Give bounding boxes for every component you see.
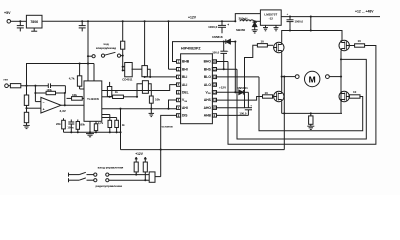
- svg-text:+: +: [43, 108, 45, 112]
- ground below R17: [149, 112, 155, 114]
- wire AHB row: [217, 114, 249, 116]
- wire top-right drain: [340, 40, 342, 42]
- capacitor C2: [81, 21, 83, 25]
- svg-text:10: 10: [261, 40, 265, 44]
- wire riser to enable bus: [120, 109, 122, 150]
- svg-text:ALO: ALO: [204, 83, 211, 87]
- svg-text:BHO: BHO: [204, 60, 212, 64]
- transistor VT1 top-left MOSFET: [274, 42, 284, 52]
- wire to feedback node: [64, 86, 66, 93]
- wire AHI DTC row: [102, 108, 177, 110]
- svg-text:10: 10: [358, 39, 362, 43]
- svg-text:SB360: SB360: [236, 28, 246, 32]
- wire bridge bottom rail: [282, 112, 342, 114]
- wire TL494 ground lead: [89, 121, 91, 132]
- pin 2 BHI: [177, 68, 181, 71]
- resistor R22 pullup: [135, 158, 137, 162]
- pin 4 ALI: [177, 83, 181, 86]
- svg-text:BHS: BHS: [204, 67, 212, 71]
- svg-text:ген: ген: [4, 78, 9, 82]
- svg-text:100,0: 100,0: [212, 50, 219, 54]
- svg-text:+: +: [227, 49, 229, 53]
- pin 6 VSS: [177, 98, 181, 101]
- wire BHB bootstrap top: [173, 42, 226, 62]
- pin 9 AHB: [212, 114, 216, 117]
- pin 10 AHO: [212, 106, 216, 109]
- wire pullup to BHI: [168, 21, 170, 69]
- svg-text:100k: 100k: [79, 124, 85, 127]
- pin 5 DEL: [177, 91, 181, 94]
- resistor R20: [102, 114, 110, 116]
- svg-text:TL494CN: TL494CN: [87, 97, 99, 101]
- svg-text:HIP4082IPZ: HIP4082IPZ: [181, 47, 201, 51]
- wire TL494 row to 10k: [102, 90, 152, 92]
- pin 11 AHS: [212, 98, 216, 101]
- wire motor left lead: [282, 76, 296, 78]
- svg-text:3,3V: 3,3V: [60, 109, 67, 113]
- wire TL494 top pins: [93, 64, 95, 81]
- wire bottom-left source to bottom rail: [281, 102, 283, 114]
- svg-text:+: +: [287, 12, 289, 16]
- pin 3 BLI: [177, 75, 181, 78]
- pin 12 ALO: [212, 83, 216, 86]
- wire AHS to bottom-left gate: [217, 97, 263, 101]
- regulator U2 LM2575T-12: [260, 10, 281, 25]
- wire bridge top rail: [282, 31, 342, 43]
- svg-text:1N5818: 1N5818: [212, 35, 223, 39]
- node motor terminal right: [326, 75, 330, 79]
- wire riser to LM2575 upper pin: [235, 14, 260, 22]
- svg-text:BLO: BLO: [204, 75, 211, 79]
- svg-text:-12: -12: [269, 17, 274, 21]
- svg-text:10: 10: [353, 90, 357, 94]
- svg-text:+5V: +5V: [4, 11, 11, 15]
- ground below divider: [23, 124, 30, 126]
- wire BHS tap: [237, 59, 366, 139]
- wire +5V to regulator: [11, 20, 27, 22]
- regulator U1 7806: [26, 15, 42, 28]
- resistor R15 1k: [109, 82, 111, 87]
- svg-text:+: +: [250, 104, 252, 108]
- capacitor C5 100,0 bootstrap B: [223, 41, 225, 43]
- svg-text:+12 ... +48V: +12 ... +48V: [355, 9, 374, 13]
- wire 7806 output rail +12V: [42, 20, 235, 22]
- svg-text:+12V: +12V: [135, 152, 143, 156]
- wire left phase node: [281, 53, 283, 92]
- ground symbol main: [89, 132, 91, 133]
- switch S2 control row 1: [68, 173, 70, 177]
- svg-text:DIS: DIS: [182, 114, 188, 118]
- wire op-amp output: [61, 104, 84, 106]
- svg-text:CD4011: CD4011: [122, 78, 133, 82]
- wire BHO row: [217, 61, 229, 63]
- svg-text:10k: 10k: [155, 98, 160, 102]
- svg-text:M: M: [309, 74, 316, 84]
- svg-text:4,7k: 4,7k: [98, 121, 104, 125]
- motor M1: [305, 71, 320, 86]
- transistor VT4 bottom-right MOSFET: [339, 91, 349, 101]
- svg-text:4,7k: 4,7k: [69, 77, 75, 81]
- capacitor C4 1000,0 input: [289, 16, 291, 18]
- wire into R7: [137, 84, 142, 97]
- svg-text:радиоуправление: радиоуправление: [96, 184, 123, 188]
- svg-text:останов: останов: [162, 125, 174, 129]
- svg-text:вход управления: вход управления: [98, 166, 124, 170]
- pin 14 BLO: [212, 75, 216, 78]
- svg-text:22k: 22k: [56, 122, 61, 126]
- capacitor C7 series: [47, 83, 49, 88]
- wire to minus input: [35, 101, 41, 103]
- svg-text:7806: 7806: [30, 20, 38, 24]
- wire R7 out to ALI: [148, 84, 176, 91]
- ground of 7806: [33, 28, 35, 31]
- wire BHO route right: [228, 46, 376, 145]
- svg-text:+12V: +12V: [219, 85, 226, 89]
- svg-text:+12V: +12V: [188, 16, 197, 20]
- wire supply riser to bridge: [310, 16, 312, 18]
- transistor VT3 bottom-left MOSFET: [274, 91, 284, 101]
- op-amp U5 TL072: [41, 97, 61, 113]
- svg-text:DEL: DEL: [182, 91, 189, 95]
- wire gate output: [155, 176, 161, 178]
- resistor R6 vertical: [144, 21, 146, 65]
- resistor R1 input: [8, 85, 10, 87]
- wire R6 out to BLI: [147, 69, 150, 77]
- wire BLO route right: [259, 77, 363, 131]
- gate U7 enable: [149, 172, 155, 182]
- svg-text:1000,0: 1000,0: [295, 19, 304, 23]
- node motor terminal left: [295, 75, 299, 79]
- pin 7 AHI: [177, 106, 181, 109]
- wire right phase node: [340, 51, 342, 114]
- svg-text:–: –: [43, 100, 45, 104]
- svg-text:1000,0: 1000,0: [208, 25, 218, 29]
- wire AHO to top-left gate: [217, 45, 258, 107]
- svg-text:100n: 100n: [67, 126, 73, 130]
- resistor R5 pullup from rail: [122, 21, 124, 41]
- wire ground rail under TL494: [64, 131, 121, 133]
- svg-text:ALI: ALI: [182, 83, 187, 87]
- svg-text:+: +: [227, 23, 229, 27]
- resistor R7 vertical: [142, 81, 148, 94]
- wire BHS row: [217, 68, 238, 70]
- controller U6 TL494CN: [84, 81, 102, 121]
- pin 15 BHS: [212, 68, 216, 71]
- wire LM2575 input rail +12..+48V: [281, 16, 380, 18]
- gate U4 CD4011: [125, 63, 133, 77]
- resistor R3 divider lower: [24, 112, 28, 122]
- wire enable bus: [121, 149, 285, 151]
- capacitor C6 100,0 bootstrap A: [247, 92, 249, 107]
- wire motor right lead: [329, 76, 341, 78]
- svg-text:вперёд/назад: вперёд/назад: [96, 46, 116, 50]
- wire VDD row: [217, 91, 236, 93]
- svg-text:AHS: AHS: [204, 98, 212, 102]
- wire control rows: [109, 174, 149, 176]
- pin 1 BHB: [177, 60, 181, 63]
- svg-text:AHO: AHO: [204, 106, 212, 110]
- resistor R4 feedback: [34, 86, 36, 102]
- wire VSS row: [167, 108, 169, 110]
- svg-text:AHI: AHI: [182, 106, 188, 110]
- ground below shunt: [307, 125, 314, 127]
- wire +12V vertical bus: [234, 42, 236, 93]
- capacitor C3 1000,0: [221, 20, 223, 22]
- wire BLO row: [217, 76, 260, 78]
- resistor R23 pullup: [144, 158, 146, 162]
- pin 13 VDD: [212, 91, 216, 94]
- node rail junction x235: [234, 20, 236, 22]
- switch S3 control row 2: [68, 178, 70, 182]
- wire riser x88 from rail: [87, 21, 89, 81]
- pin 8 DIS: [177, 114, 181, 117]
- svg-text:BHI: BHI: [182, 67, 188, 71]
- wire bias line y65: [27, 64, 95, 86]
- wire to plus input: [27, 107, 41, 109]
- resistor R2 divider upper: [24, 95, 28, 105]
- capacitor C1: [19, 21, 21, 25]
- ground leads of LM2575: [265, 25, 267, 27]
- op-amp chip U3 HIP4082IPZ body: [181, 54, 213, 124]
- diode VD2 SB360 catch diode: [254, 20, 256, 22]
- svg-text:BHB: BHB: [182, 60, 190, 64]
- pin 16 BHO: [212, 60, 216, 63]
- svg-text:BLI: BLI: [182, 75, 187, 79]
- resistor R14 current shunt: [310, 113, 312, 116]
- wire phase sense to bus: [283, 77, 285, 150]
- svg-text:AHB: AHB: [204, 114, 212, 118]
- svg-text:1N5401: 1N5401: [237, 86, 248, 90]
- wire gate1 out to R6: [132, 68, 142, 70]
- wire DIS row to enable gate: [161, 115, 177, 176]
- wire into LM2575 lower-left pin: [255, 20, 261, 22]
- transistor VT2 top-right MOSFET: [339, 40, 349, 50]
